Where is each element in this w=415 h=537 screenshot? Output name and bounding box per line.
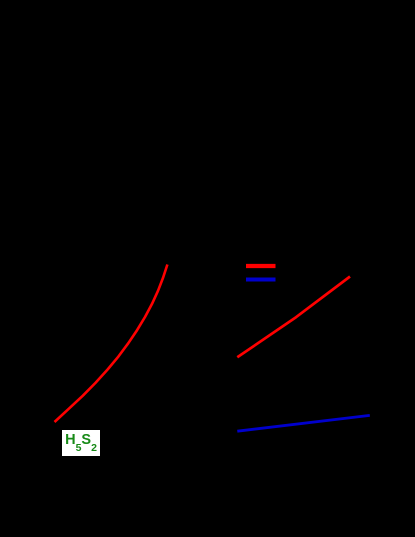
legend marker blue: [246, 278, 276, 282]
legend marker red: [246, 264, 276, 268]
curve: blue line: [237, 415, 369, 431]
curve: right red line: [237, 277, 350, 358]
curve: H5S2 red growth curve: [55, 265, 168, 423]
label H5S2: [62, 430, 100, 456]
